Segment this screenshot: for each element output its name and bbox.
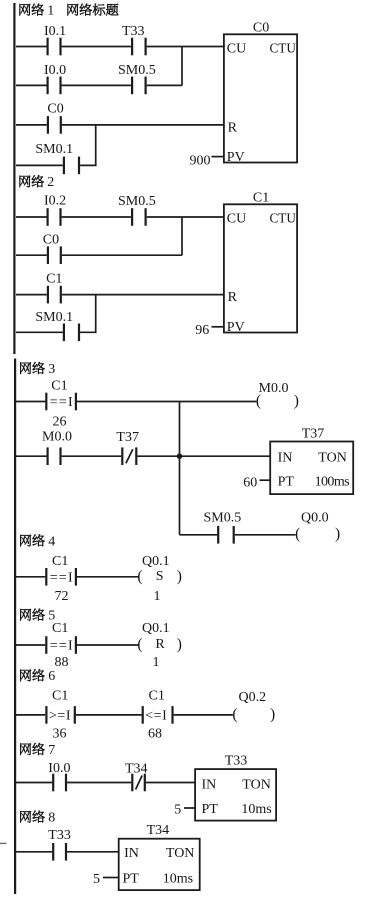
svg-text:==I: ==I	[50, 571, 74, 586]
svg-text:CTU: CTU	[270, 211, 297, 226]
wire >=I to <=I	[76, 714, 142, 716]
wire net1 rung: rail to I0.1	[16, 46, 47, 48]
wire net2 branch: rail to C0	[16, 254, 47, 256]
svg-text:900: 900	[190, 153, 211, 168]
slash of NC contact T34	[136, 776, 143, 790]
svg-text:M0.0: M0.0	[259, 381, 289, 396]
svg-text:C1: C1	[52, 621, 68, 636]
svg-text:10ms: 10ms	[163, 872, 193, 887]
wire net8: rail to T33 contact	[16, 851, 52, 853]
contact SM0.5 (net2)	[131, 208, 133, 226]
wire net2: rail to C1 contact	[16, 294, 47, 296]
svg-text:PV: PV	[227, 320, 245, 335]
svg-text:Q0.0: Q0.0	[301, 510, 329, 525]
svg-text:C1: C1	[46, 271, 62, 286]
svg-text:C1: C1	[253, 190, 269, 205]
svg-text:(: (	[137, 568, 142, 585]
counter C1 CTU box	[224, 204, 297, 332]
svg-text:C1: C1	[52, 554, 68, 569]
contact M0.0	[46, 447, 48, 465]
comparison contact C1 <=I	[142, 706, 144, 724]
wire T37 to TON IN input	[137, 455, 270, 457]
wire T33 to counter C0 CU input	[147, 46, 224, 48]
junction dot at branch x=179.5	[177, 453, 183, 459]
svg-text:Q0.2: Q0.2	[239, 690, 267, 705]
NC contact T37	[121, 447, 123, 465]
svg-text:36: 36	[53, 727, 67, 742]
svg-text:6: 6	[48, 669, 55, 684]
svg-text:TON: TON	[318, 450, 347, 465]
timer T33 TON box	[195, 769, 276, 821]
wire <=I to Q0.2 coil	[174, 714, 233, 716]
vertical branch at x=179.5	[179, 402, 181, 535]
svg-text:1: 1	[154, 589, 161, 604]
svg-text:T33: T33	[48, 828, 71, 843]
svg-text:7: 7	[48, 743, 55, 758]
svg-text:CTU: CTU	[270, 41, 297, 56]
wire net7: rail to I0.0	[16, 782, 52, 784]
wire C1 to counter R input	[62, 294, 224, 296]
contact T33	[131, 38, 133, 56]
wire 60 to PT input	[260, 479, 271, 481]
svg-text:I0.2: I0.2	[44, 193, 66, 208]
wire branch to SM0.5 contact	[180, 534, 218, 536]
left power rail (networks 3-8)	[14, 359, 16, 895]
wire I0.1 to T33	[62, 46, 131, 48]
svg-text:R: R	[228, 120, 238, 135]
contact I0.1	[46, 38, 48, 56]
svg-text:PT: PT	[278, 475, 295, 490]
svg-text:PV: PV	[227, 150, 245, 165]
svg-text:SM0.1: SM0.1	[35, 142, 73, 157]
svg-text:4: 4	[48, 534, 55, 549]
label 网络3	[20, 362, 31, 374]
svg-text:M0.0: M0.0	[42, 430, 72, 445]
svg-text:(: (	[256, 393, 261, 410]
svg-text:TON: TON	[166, 846, 195, 861]
svg-text:72: 72	[55, 589, 69, 604]
svg-text:SM0.1: SM0.1	[35, 310, 73, 325]
svg-text:68: 68	[148, 727, 162, 742]
svg-text:CU: CU	[227, 42, 246, 57]
wire ==I to S coil	[77, 576, 138, 578]
svg-text:): )	[294, 393, 299, 410]
vertical branch join at x=95.7	[95, 125, 97, 165]
wire net2 rung: rail to I0.2	[16, 216, 47, 218]
svg-text:>=I: >=I	[49, 709, 71, 724]
counter C0 CTU box	[224, 34, 297, 162]
timer T37 TON box	[270, 442, 353, 495]
label 网络7	[20, 743, 31, 755]
wire SM0.1 to join (net2)	[80, 331, 97, 333]
label 网络8	[20, 811, 31, 823]
svg-text:(: (	[232, 706, 237, 723]
svg-text:T33: T33	[122, 24, 145, 39]
wire net1: rail to C0 contact	[16, 124, 47, 126]
svg-text:T34: T34	[125, 761, 148, 776]
wire I0.2 to SM0.5	[62, 216, 131, 218]
comparison contact C1 ==I (net5)	[45, 636, 47, 654]
svg-text:): )	[335, 526, 340, 543]
wire 96 to PV input	[212, 326, 224, 328]
wire C0 to counter R input	[62, 124, 224, 126]
svg-text:I0.0: I0.0	[44, 63, 66, 78]
wire ==I to M0.0 coil	[77, 401, 256, 403]
svg-text:8: 8	[48, 811, 55, 826]
contact SM0.1 (net2)	[63, 324, 65, 342]
wire net6: rail to >=I	[16, 714, 45, 716]
NC contact T34	[131, 774, 133, 792]
vertical branch join net2	[181, 217, 183, 255]
svg-text:C0: C0	[47, 102, 63, 117]
wire T33 to TON IN (T34)	[67, 851, 119, 853]
svg-text:SM0.5: SM0.5	[118, 194, 156, 209]
wire net3: rail to ==I contact	[16, 401, 45, 403]
svg-text:==I: ==I	[50, 395, 74, 410]
svg-text:C0: C0	[253, 20, 269, 35]
svg-text:T34: T34	[147, 823, 170, 838]
vertical branch join at x=182	[181, 47, 183, 86]
svg-text:PT: PT	[202, 802, 219, 817]
wire 5 to PT input (T34)	[103, 877, 119, 879]
wire net3: rail to M0.0 contact	[16, 455, 47, 457]
svg-text:SM0.5: SM0.5	[204, 510, 242, 525]
svg-text:T33: T33	[225, 754, 248, 769]
contact I0.0 (net7)	[52, 774, 54, 792]
svg-text:26: 26	[53, 415, 67, 430]
wire SM0.1 to join	[80, 164, 97, 166]
svg-text:100ms: 100ms	[315, 475, 350, 490]
svg-text:<=I: <=I	[145, 709, 167, 724]
svg-text:T37: T37	[116, 430, 139, 445]
svg-text:1: 1	[153, 655, 160, 670]
svg-text:IN: IN	[124, 846, 139, 861]
wire net1 branch: rail to I0.0	[16, 84, 47, 86]
svg-text:CU: CU	[227, 212, 246, 227]
contact C1	[47, 286, 49, 304]
vertical branch join at x=95.7 (net2)	[95, 295, 97, 333]
wire 5 to PT input (T33)	[184, 807, 195, 809]
wire I0.0 to T34 NC contact	[67, 782, 131, 784]
wire SM0.5 to junction	[147, 84, 182, 86]
comparison contact C1 ==I	[45, 393, 47, 411]
contact SM0.1	[63, 157, 65, 175]
svg-text:I0.1: I0.1	[44, 24, 66, 39]
wire T34 to TON IN (T33)	[146, 782, 195, 784]
wire net2: rail to SM0.1	[16, 331, 63, 333]
slash of NC contact T37	[126, 449, 133, 463]
svg-text:): )	[177, 568, 182, 585]
label 网络标题	[68, 4, 79, 16]
wire net1: rail to SM0.1	[16, 164, 63, 166]
contact SM0.5 (net3)	[217, 526, 219, 544]
wire net5: rail to ==I	[16, 644, 45, 646]
label 网络1	[20, 4, 31, 16]
svg-text:88: 88	[55, 655, 69, 670]
svg-text:1: 1	[47, 4, 54, 19]
wire SM0.5 to counter C1 CU input	[147, 216, 224, 218]
svg-text:TON: TON	[242, 778, 271, 793]
svg-text:IN: IN	[278, 450, 293, 465]
comparison contact C1 >=I	[45, 706, 47, 724]
svg-text:R: R	[155, 637, 165, 652]
svg-text:==I: ==I	[50, 639, 74, 654]
svg-text:): )	[270, 706, 275, 723]
svg-text:(: (	[137, 636, 142, 653]
label 网络6	[20, 670, 31, 682]
wire SM0.5 to Q0.0 coil	[235, 534, 296, 536]
svg-text:C1: C1	[52, 689, 68, 704]
svg-text:Q0.1: Q0.1	[142, 554, 170, 569]
contact I0.2	[46, 208, 48, 226]
svg-text:): )	[177, 636, 182, 653]
label 网络2	[20, 176, 31, 188]
left power rail (networks 1-2)	[13, 3, 15, 354]
contact C0	[47, 116, 49, 134]
page-edge tick mark	[0, 842, 7, 844]
svg-text:C0: C0	[43, 232, 59, 247]
svg-text:(: (	[295, 526, 300, 543]
wire 900 to PV input	[212, 156, 224, 158]
svg-text:10ms: 10ms	[241, 802, 271, 817]
contact I0.0	[46, 77, 48, 95]
svg-text:S: S	[156, 569, 164, 584]
contact T33	[52, 843, 54, 861]
svg-text:C1: C1	[51, 378, 67, 393]
svg-text:Q0.1: Q0.1	[142, 621, 170, 636]
contact C0 (net2)	[47, 246, 49, 264]
wire ==I to R coil	[77, 644, 138, 646]
svg-text:5: 5	[174, 802, 181, 817]
svg-text:3: 3	[48, 362, 55, 377]
wire net4: rail to ==I	[16, 576, 45, 578]
svg-text:R: R	[228, 290, 238, 305]
svg-text:T37: T37	[302, 427, 325, 442]
svg-text:I0.0: I0.0	[48, 761, 70, 776]
comparison contact C1 ==I (net4)	[45, 568, 47, 586]
svg-text:SM0.5: SM0.5	[118, 63, 156, 78]
contact SM0.5	[131, 77, 133, 95]
svg-text:96: 96	[195, 323, 209, 338]
svg-text:5: 5	[93, 872, 100, 887]
label 网络4	[20, 535, 31, 547]
timer T34 TON box	[119, 839, 200, 890]
svg-text:60: 60	[243, 475, 257, 490]
wire C0 to junction	[62, 254, 182, 256]
wire I0.0 to SM0.5	[62, 84, 131, 86]
svg-text:PT: PT	[123, 872, 140, 887]
wire M0.0 to T37 contact	[62, 455, 122, 457]
svg-text:C1: C1	[149, 689, 165, 704]
svg-text:IN: IN	[202, 778, 217, 793]
svg-text:2: 2	[47, 175, 54, 190]
label 网络5	[20, 609, 31, 621]
